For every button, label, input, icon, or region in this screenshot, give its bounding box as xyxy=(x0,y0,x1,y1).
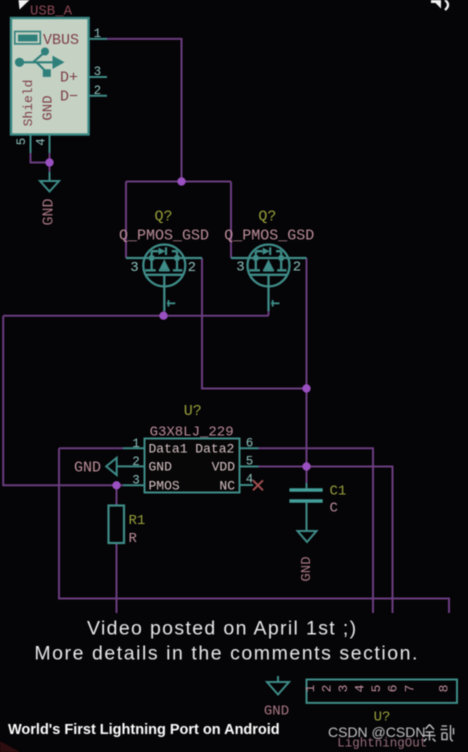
svg-text:6: 6 xyxy=(386,685,401,693)
svg-text:GND: GND xyxy=(149,460,173,475)
svg-text:3: 3 xyxy=(132,474,140,488)
svg-text:5: 5 xyxy=(246,455,254,469)
svg-text:Shield: Shield xyxy=(21,80,36,127)
svg-text:2: 2 xyxy=(320,685,335,693)
svg-text:PMOS: PMOS xyxy=(149,478,180,493)
svg-text:VDD: VDD xyxy=(212,460,236,475)
svg-text:4: 4 xyxy=(353,684,368,692)
svg-text:Q_PMOS_GSD: Q_PMOS_GSD xyxy=(119,227,209,244)
svg-text:5: 5 xyxy=(369,685,384,693)
svg-text:VBUS: VBUS xyxy=(43,32,79,49)
svg-text:1: 1 xyxy=(303,684,318,692)
svg-text:3: 3 xyxy=(94,65,102,79)
svg-text:2: 2 xyxy=(293,260,301,276)
svg-text:D+: D+ xyxy=(60,70,78,87)
svg-text:4: 4 xyxy=(246,473,254,487)
svg-text:2: 2 xyxy=(94,84,102,98)
svg-text:4: 4 xyxy=(35,138,49,146)
svg-text:1: 1 xyxy=(94,27,102,41)
svg-text:G3X8LJ_229: G3X8LJ_229 xyxy=(150,424,234,440)
svg-text:3: 3 xyxy=(236,260,244,276)
svg-text:GND: GND xyxy=(74,460,101,477)
svg-text:D−: D− xyxy=(60,89,78,106)
svg-text:GND: GND xyxy=(41,95,57,120)
svg-text:1: 1 xyxy=(132,437,140,451)
svg-text:C1: C1 xyxy=(330,484,347,500)
svg-text:2: 2 xyxy=(132,455,140,469)
svg-text:Q?: Q? xyxy=(258,209,276,226)
svg-text:R: R xyxy=(129,531,138,547)
svg-text:R1: R1 xyxy=(129,513,146,529)
svg-text:USB_A: USB_A xyxy=(30,3,73,19)
svg-text:2: 2 xyxy=(188,260,196,276)
svg-text:C: C xyxy=(330,501,338,517)
svg-text:GND: GND xyxy=(299,556,315,581)
svg-text:Video posted on April 1st ;): Video posted on April 1st ;) xyxy=(87,618,358,640)
svg-text:5: 5 xyxy=(15,138,29,146)
svg-text:3: 3 xyxy=(336,685,351,693)
svg-text:NC: NC xyxy=(219,478,235,493)
svg-text:More details in the comments s: More details in the comments section. xyxy=(34,643,419,665)
svg-text:3: 3 xyxy=(130,260,138,276)
svg-text:U?: U? xyxy=(184,403,202,420)
svg-text:GND: GND xyxy=(264,704,289,720)
svg-text:GND: GND xyxy=(41,198,58,225)
svg-text:7: 7 xyxy=(403,685,418,693)
svg-text:Data1 Data2: Data1 Data2 xyxy=(149,441,235,456)
svg-text:Q?: Q? xyxy=(154,209,172,226)
svg-text:8: 8 xyxy=(437,685,452,693)
svg-text:World's First Lightning Port o: World's First Lightning Port on Android xyxy=(8,722,280,738)
svg-text:Q_PMOS_GSD: Q_PMOS_GSD xyxy=(224,227,314,244)
svg-text:6: 6 xyxy=(246,437,254,451)
svg-text:CSDN @CSDN: CSDN @CSDN xyxy=(328,724,425,740)
